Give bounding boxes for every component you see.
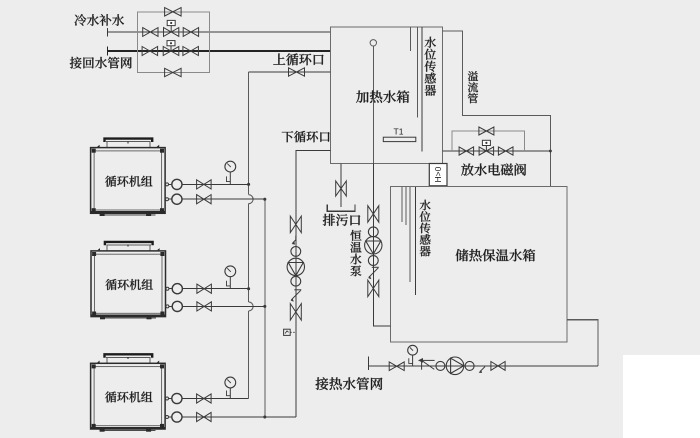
valve: make-up line left shutoff: [143, 28, 158, 37]
valve: hot water shutoff (right): [491, 362, 505, 371]
fitting: blowdown funnel: [327, 205, 355, 212]
node: junction return bus / unit1 lower: [263, 198, 266, 201]
wire: return bus (vertical): [264, 199, 266, 417]
pipe end cap: hot water network: [368, 356, 370, 370]
label: hot water network 接热水管网: [316, 377, 383, 390]
pipe: unit lower line: [182, 305, 264, 307]
pipe: upper circulation line: [249, 71, 331, 73]
label: lower circulation port 下循环口: [282, 131, 330, 142]
sensor: thermometer tag on riser: [284, 329, 291, 335]
valve: return line right shutoff: [183, 47, 199, 56]
fitting: flexible joint (lower): [291, 276, 301, 286]
label: storage tank: [456, 249, 535, 261]
pipe: return network line: [108, 50, 331, 52]
pipe: tank2 right outlet to hot-water line: [567, 320, 598, 367]
node: junction supply bus / unit2 upper: [247, 287, 250, 290]
label: overflow pipe (vertical): [468, 71, 478, 103]
valve: make-up line solenoid (motorized): [164, 28, 179, 37]
label: water level sensor (vertical, tank2): [420, 200, 431, 257]
tank: heat storage insulated tank 储热保温水箱: [391, 186, 567, 342]
sensor: level rod 3 (tank2): [409, 187, 411, 282]
valve: check valve: [372, 266, 379, 268]
gauge: hot water pressure gauge: [408, 345, 418, 366]
fitting: upper union circle: [166, 179, 182, 189]
valve: unit upper valve: [197, 394, 212, 403]
fitting: vent mark: [293, 236, 296, 243]
pipe: hot water supply line: [369, 365, 598, 367]
wire: probe line down through tank: [372, 46, 374, 164]
svg-text:T1: T1: [394, 126, 404, 136]
valve: hot water shutoff (left): [389, 362, 404, 371]
sensor: level rod 4 (tank2): [415, 187, 417, 295]
node: junction supply bus / unit1 upper: [247, 183, 250, 186]
unit: heat pump circulation unit 循环机组: [91, 354, 166, 431]
valve: unit lower valve: [197, 195, 212, 204]
label: cold make-up water (冷水补水): [74, 14, 124, 26]
unit: heat pump circulation unit 循环机组: [91, 139, 166, 216]
wire: drain bypass frame: [452, 131, 524, 151]
label: circulation unit text: [106, 279, 153, 290]
valve: bottom bypass valve: [165, 68, 182, 76]
pipe: bottom return run to pump riser: [265, 416, 296, 418]
fitting: upper union circle: [166, 284, 183, 294]
label: upper circulation port 上循环口: [273, 53, 323, 65]
pipe: unit upper line: [182, 288, 248, 290]
sensor: level rod 2 (tank2): [405, 187, 407, 225]
valve: unit upper valve: [197, 284, 212, 293]
fitting: lower union circle: [166, 194, 182, 204]
pipe: unit upper line: [182, 398, 249, 400]
pipe: blowdown drop from tank1 bottom: [340, 164, 342, 208]
unit: heat pump circulation unit 循环机组: [91, 242, 166, 319]
label: constant temperature pump (vertical): [350, 230, 361, 276]
pipe: unit upper line: [182, 183, 249, 185]
valve: drain solenoid (motorized): [479, 147, 494, 155]
white corner patch: [623, 355, 700, 438]
wire: supply bus (vertical) with crossing hops: [248, 72, 250, 195]
gauge: pressure gauge: [225, 377, 236, 398]
valve: drain left shutoff: [459, 147, 474, 155]
pipe end cap: cold make-up water inlet: [107, 28, 109, 37]
tank: heating water tank 加热水箱: [330, 27, 442, 164]
sensor: level rod 1 (tank2): [401, 187, 403, 222]
gauge: pressure gauge: [225, 266, 236, 289]
pump: circulation pump: [287, 258, 304, 275]
fitting: flexible joint (upper): [291, 247, 301, 257]
fitting: flexible joint (left): [436, 361, 445, 370]
sensor: temperature probe circle: [370, 40, 376, 46]
pipe: unit lower line: [182, 198, 265, 200]
wire: bypass frame around make-up valves: [137, 12, 209, 73]
valve: unit lower valve: [197, 302, 212, 311]
node: H>0 head label box between tanks: [429, 164, 447, 186]
node: junction drain line / overflow drop: [549, 150, 552, 153]
fitting: lower union circle: [166, 412, 182, 422]
valve: blowdown valve: [336, 181, 347, 196]
fitting: upper union circle: [166, 393, 182, 403]
valve: top bypass valve: [165, 8, 182, 16]
valve: return line solenoid (motorized): [163, 47, 179, 56]
valve: drain bypass valve: [479, 127, 494, 135]
gauge: pressure gauge: [225, 161, 236, 184]
pipe: lower circulation line from tank1: [296, 150, 331, 417]
label: drain solenoid valve 放水电磁阀: [461, 163, 526, 175]
fitting: lower union circle: [166, 301, 183, 311]
valve: make-up line right shutoff: [183, 28, 198, 37]
pump: constant temperature pump 恒温水泵: [365, 237, 382, 254]
valve: return line left shutoff: [142, 47, 158, 56]
valve: const-temp pump inlet valve: [368, 206, 379, 223]
valve: circulation pump outlet valve: [290, 304, 301, 321]
label: circulation unit text: [105, 176, 152, 187]
node: junction return bus / unit2 lower: [263, 305, 266, 308]
pipe: tank1 bottom to tank2 left (pump leg): [373, 164, 390, 327]
valve: unit upper valve: [197, 180, 212, 189]
heater: heating element bar: [383, 137, 416, 141]
label: blowdown port 排污口: [323, 214, 360, 226]
pipe: cold make-up water line: [108, 31, 331, 33]
label: water level sensor (vertical, tank1): [425, 37, 436, 96]
valve: const-temp pump outlet valve: [368, 280, 379, 297]
valve: circulation pump inlet valve: [290, 216, 301, 233]
label: heating water tank: [356, 90, 409, 102]
node: junction return bus / bottom run: [263, 416, 266, 419]
pipe end cap: return network: [107, 46, 109, 55]
valve: upper circulation valve: [289, 68, 305, 76]
sensor: level electrode rod 3: [421, 27, 423, 152]
label: return water network (接回水管网): [70, 57, 132, 69]
svg-text:H>0: H>0: [433, 166, 443, 182]
pump: hot water pump: [446, 357, 464, 375]
pipe: overflow line 溢流管: [443, 31, 551, 186]
fitting: flexible joint (upper): [368, 227, 378, 237]
valve: check valve: [294, 289, 301, 291]
sensor: level electrode rod 1: [410, 27, 412, 51]
valve: drain right shutoff: [498, 147, 513, 155]
pipe: unit lower line: [182, 416, 265, 418]
fitting: flexible joint (right): [465, 361, 474, 370]
valve: check valve (hot water): [418, 358, 435, 370]
valve: unit lower valve: [197, 412, 212, 421]
pipe: drain line from tank1: [443, 150, 551, 152]
sensor: level electrode rod 2: [416, 27, 418, 118]
label: circulation unit text: [105, 391, 152, 402]
fitting: small drain cock mark: [479, 367, 485, 373]
fitting: flexible joint (lower): [368, 256, 378, 266]
